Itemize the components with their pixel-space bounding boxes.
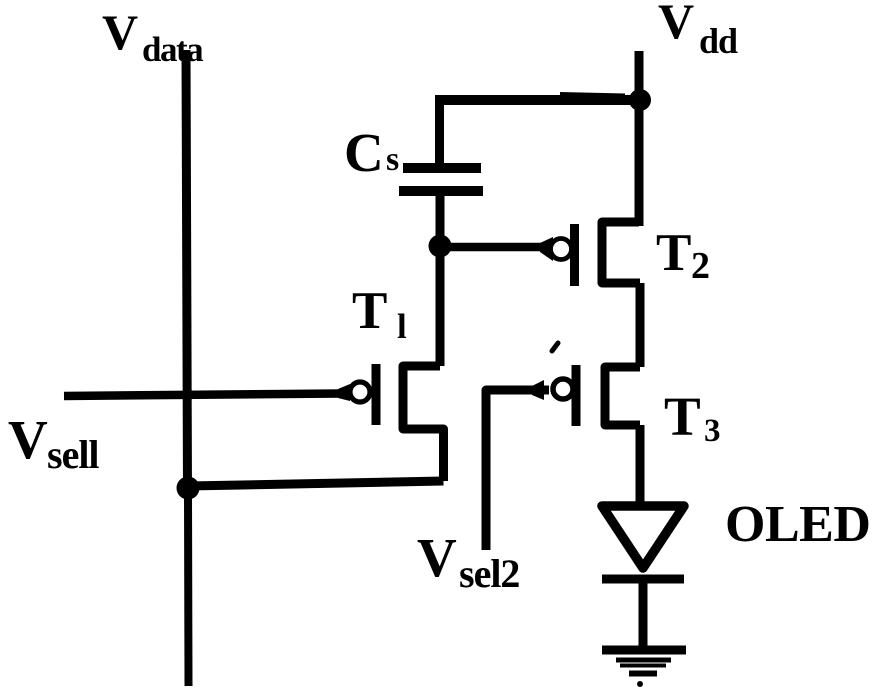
wire Vsel2 to T3 gate bbox=[486, 380, 549, 550]
svg-text:data: data bbox=[142, 30, 203, 69]
label V_sel2 bbox=[417, 527, 519, 596]
wire capacitor bottom lead down to T1 drain bbox=[436, 192, 445, 366]
node junction dot on Vdata bbox=[177, 477, 200, 500]
svg-text:sell: sell bbox=[47, 432, 99, 477]
diode OLED triangle bbox=[602, 506, 684, 568]
label V_sel1 bbox=[8, 409, 99, 477]
T1 gate bubble bbox=[350, 382, 370, 402]
wire OLED cathode to ground bbox=[639, 580, 648, 649]
ground symbol bbox=[602, 650, 686, 687]
svg-text:C: C bbox=[344, 122, 384, 183]
wire Vsel1 row to T1 gate bbox=[64, 384, 350, 401]
wire T1 source bottom feedback to Vdata bbox=[188, 481, 444, 486]
wire V_data vertical bus bbox=[186, 50, 189, 686]
diode OLED cathode bar bbox=[602, 575, 684, 584]
label T_2 bbox=[656, 224, 710, 287]
T3 gate bubble bbox=[553, 379, 573, 399]
svg-text:V: V bbox=[417, 527, 457, 588]
capacitor Cs bottom plate bbox=[399, 186, 483, 196]
label V_dd bbox=[658, 0, 738, 61]
wire top horizontal (cap top to Vdd) bbox=[440, 94, 640, 101]
label T_3 bbox=[664, 386, 721, 449]
transistor T1 channel bbox=[403, 366, 444, 481]
T2 gate bubble bbox=[551, 239, 572, 260]
svg-text:T: T bbox=[664, 386, 701, 447]
svg-text:sel2: sel2 bbox=[459, 551, 519, 596]
wire capacitor top lead bbox=[435, 95, 444, 166]
wire storage node to T2 gate bbox=[440, 237, 553, 261]
node junction dot storage node bbox=[429, 235, 452, 258]
svg-text:l: l bbox=[397, 307, 407, 346]
T1 gate bar bbox=[372, 364, 381, 425]
svg-text:3: 3 bbox=[704, 413, 721, 449]
svg-text:dd: dd bbox=[699, 21, 738, 61]
T3 gate bar bbox=[572, 365, 581, 426]
wire T2 source to T3 drain bbox=[636, 283, 645, 367]
label OLED bbox=[725, 496, 870, 553]
wire Vdd vertical drop bbox=[635, 51, 644, 226]
capacitor Cs top plate bbox=[403, 163, 481, 173]
label V_data bbox=[102, 4, 203, 69]
transistor T3 channel bbox=[605, 367, 640, 425]
svg-text:T: T bbox=[656, 224, 691, 282]
T2 gate bar bbox=[570, 224, 579, 286]
label T_1 bbox=[352, 282, 407, 346]
node junction dot at Vdd bbox=[629, 89, 651, 111]
svg-text:V: V bbox=[8, 409, 48, 470]
stray mark above T3 gate bbox=[552, 343, 558, 351]
svg-text:V: V bbox=[102, 4, 138, 60]
svg-text:V: V bbox=[658, 0, 694, 49]
transistor T2 channel bbox=[602, 222, 640, 283]
svg-text:T: T bbox=[352, 282, 387, 340]
svg-text:OLED: OLED bbox=[725, 496, 870, 553]
svg-text:2: 2 bbox=[691, 245, 710, 287]
svg-text:s: s bbox=[386, 141, 399, 178]
wire T3 source to OLED anode bbox=[636, 425, 645, 503]
label C_s bbox=[344, 122, 399, 183]
